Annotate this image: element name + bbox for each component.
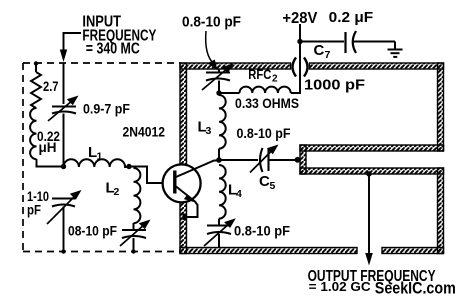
- wire node B to base: [129, 167, 163, 184]
- inductor L4: [219, 165, 226, 219]
- shield box dashed top: [23, 62, 180, 64]
- input arrowhead: [60, 50, 67, 63]
- arrow of bottom trimmer: [204, 223, 230, 246]
- shield box dashed bottom: [23, 251, 180, 253]
- svg-text:0.2 μF: 0.2 μF: [329, 9, 374, 26]
- cavity top wall right segment: [310, 63, 444, 69]
- cavity left wall upper segment: [180, 63, 187, 165]
- variable capacitor 08-10 pF: [122, 223, 146, 252]
- inductor L3: [219, 95, 226, 149]
- svg-text:0.8-10 pF: 0.8-10 pF: [234, 223, 290, 239]
- svg-text:0.8-10 pF: 0.8-10 pF: [237, 125, 291, 141]
- output probe junction dot: [366, 171, 371, 176]
- junction dot at slot: [295, 157, 301, 163]
- svg-text:5: 5: [270, 180, 276, 192]
- svg-text:μH: μH: [39, 139, 57, 155]
- +28V node dot: [297, 39, 302, 44]
- cavity bottom wall left segment: [180, 248, 357, 254]
- output probe wire: [368, 174, 370, 256]
- output arrowhead: [365, 253, 373, 266]
- svg-text:2: 2: [272, 74, 278, 85]
- svg-text:1: 1: [97, 151, 103, 163]
- +28V lead: [299, 24, 301, 42]
- node D junction dot: [216, 157, 222, 163]
- svg-text:4: 4: [236, 188, 242, 200]
- blob where bracket meets wall: [183, 214, 188, 221]
- svg-text:2N4012: 2N4012: [123, 124, 166, 140]
- arrow of 1-10 pF: [47, 195, 76, 224]
- variable capacitor C5: [260, 148, 263, 172]
- feedthrough capacitor C7 plates: [293, 58, 297, 77]
- svg-text:RFC: RFC: [248, 67, 271, 82]
- input lead wire: [63, 32, 65, 50]
- wire +28V to 0.2uF: [300, 41, 344, 43]
- svg-text:7: 7: [325, 49, 331, 61]
- ground: [388, 42, 403, 57]
- transistor collector: [175, 161, 218, 178]
- svg-text:0.9-7 pF: 0.9-7 pF: [83, 101, 130, 117]
- svg-text:0.33 OHMS: 0.33 OHMS: [235, 95, 299, 111]
- transistor Q1 2N4012 circle: [163, 164, 201, 202]
- inductor L2: [134, 168, 141, 223]
- wire input to C1: [63, 63, 65, 104]
- arrow of C5: [250, 150, 273, 173]
- wire RFC2 to +28V line: [291, 42, 300, 93]
- node A junction dot: [61, 164, 66, 169]
- input lead tick: [64, 32, 82, 34]
- svg-text:0.8-10 pF: 0.8-10 pF: [182, 15, 241, 31]
- capacitor 0.2 uF: [344, 32, 346, 53]
- svg-text:C: C: [259, 173, 270, 190]
- svg-text:2.7: 2.7: [43, 78, 59, 94]
- cavity left wall lower segment: [180, 202, 187, 254]
- label INPUT FREQUENCY = 340 MC: [82, 13, 156, 57]
- re-entrant slot left cap: [300, 145, 306, 174]
- cavity bottom wall right segment: [382, 248, 444, 254]
- wire 1-10 pF to shield bottom: [63, 207, 65, 252]
- wire C1 to node A: [63, 117, 65, 167]
- junction blob: [61, 249, 65, 253]
- re-entrant slot top band: [300, 145, 444, 151]
- wire L3 to node D: [218, 149, 220, 160]
- node B junction dot: [126, 164, 131, 169]
- svg-text:3: 3: [206, 125, 212, 137]
- wire 0.2uF to ground: [354, 41, 396, 43]
- variable capacitor 0.9-7 pF: [52, 107, 76, 119]
- shield box dashed left: [22, 63, 24, 252]
- cavity right wall lower segment: [438, 168, 444, 254]
- svg-text:= 1.02 GC: = 1.02 GC: [309, 280, 371, 294]
- node on shield top: [34, 61, 38, 65]
- emitter bracket to wall: [184, 202, 198, 218]
- variable capacitor 0.8-10 pF bottom: [207, 226, 231, 248]
- svg-text:C: C: [314, 42, 325, 59]
- arrow of 08-10 pF: [120, 224, 145, 246]
- cavity top wall left segment: [180, 63, 291, 69]
- variable capacitor 1-10 pF: [52, 199, 75, 207]
- wire inductor to node A: [37, 159, 64, 167]
- transistor base bar: [173, 171, 176, 194]
- wire L4 to trimmer: [218, 219, 220, 226]
- choke RFC2: [219, 92, 240, 94]
- svg-text:2: 2: [114, 186, 120, 198]
- re-entrant slot bottom band: [300, 168, 444, 174]
- svg-text:08-10 pF: 08-10 pF: [68, 224, 117, 239]
- transistor emitter with arrow: [175, 186, 195, 202]
- node C junction dot: [216, 90, 221, 95]
- feedthrough trimmer 0.8-10 pF top: [218, 69, 220, 72]
- arrow of top trimmer: [202, 68, 228, 90]
- svg-text:+28V: +28V: [282, 10, 318, 27]
- svg-text:pF: pF: [27, 202, 41, 218]
- inductor L1: [64, 159, 129, 167]
- wire C5 to slot: [269, 159, 298, 161]
- svg-text:= 340 MC: = 340 MC: [86, 41, 140, 58]
- arrow of 0.9-7 pF: [48, 100, 73, 121]
- wire node D to C5: [219, 159, 258, 161]
- label leader arrow: [206, 31, 214, 64]
- cavity right wall upper segment: [438, 63, 444, 151]
- wire shield to resistor: [35, 64, 37, 73]
- junction blob on shield bottom left: [131, 249, 135, 253]
- resistor 2.7: [31, 72, 41, 108]
- svg-text:SeekIC.com: SeekIC.com: [375, 280, 456, 298]
- svg-text:1000 pF: 1000 pF: [304, 77, 365, 94]
- inductor 0.22 uH: [30, 108, 36, 159]
